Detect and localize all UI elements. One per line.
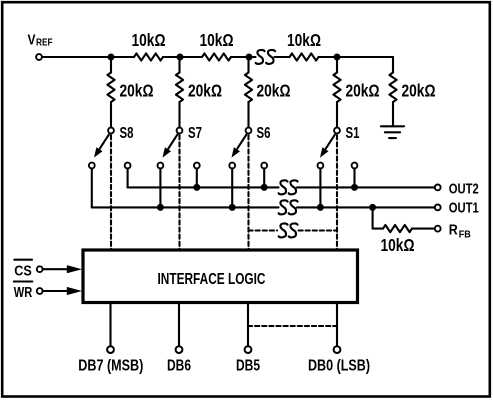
switch S6 pole [246,128,252,134]
svg-text:R: R [449,223,458,239]
dashed bus S6-S1 left [249,229,278,231]
wire OUT1 bus left [92,206,279,208]
wire contact S8 OUT2 stem [127,168,129,187]
contact S6 OUT1 [229,163,235,169]
svg-text:10kΩ: 10kΩ [381,235,415,255]
svg-text:S7: S7 [188,125,202,142]
svg-text:S8: S8 [120,125,134,142]
interface logic box U1 [83,250,358,303]
dashed control line S8 [110,135,112,249]
svg-text:INTERFACE LOGIC: INTERFACE LOGIC [158,271,266,288]
svg-text:REF: REF [36,38,53,49]
svg-text:S6: S6 [257,125,271,142]
wire DB7 [109,303,111,347]
label 20k R8 [402,81,436,101]
label 20k R6 [257,81,291,101]
terminal OUT2 [435,185,441,191]
wire contact S6 OUT1 stem [231,168,233,207]
label 20k R7 [346,81,380,101]
switch S8 pole [108,128,114,134]
terminal RFB [435,226,441,232]
wire break marks OUT2 [279,180,298,194]
wire DB6 [178,303,180,347]
label INTERFACE LOGIC [158,271,266,288]
label OUT2 [449,182,479,198]
label S6 [257,125,271,142]
dashed bus DB5-DB0 [248,325,337,327]
svg-text:20kΩ: 20kΩ [257,81,291,101]
label VREF [28,33,53,49]
resistor R5 20k [176,57,183,128]
label 10k R3 [287,30,321,50]
label 10k R2 [200,30,234,50]
label 10k R9 [381,235,415,255]
svg-text:OUT2: OUT2 [449,182,479,198]
OUT2 junction S7 [193,184,200,191]
wire node B [231,56,256,58]
dashed control line S6 [247,135,249,249]
wire OUT2 bus right [297,186,435,188]
resistor R6 20k [245,57,252,128]
wire contact S1 OUT2 stem [353,168,355,187]
wire RFB tap down [373,207,383,228]
label S1 [346,125,360,142]
wire node C to termination [319,56,394,58]
wire OUT1 bus right [297,206,435,208]
ground [381,126,404,138]
wire break marks OUT1 [279,200,298,214]
wire R9 to terminal [412,228,435,230]
terminal WR [37,288,43,294]
wire node A [163,56,202,58]
svg-text:DB5: DB5 [236,358,260,375]
OUT1 junction S7 [157,204,164,211]
terminal VREF [36,54,42,60]
switch S8 wiper arrow [94,135,109,158]
svg-text:CS: CS [14,262,32,279]
resistor R9 10k feedback [383,225,412,232]
label 20k R4 [120,81,154,101]
terminal OUT1 [435,205,441,211]
wire to R3 [275,56,290,58]
wire VREF to node A [42,56,134,58]
svg-text:DB7 (MSB): DB7 (MSB) [78,358,143,375]
dashed control line S7 [178,135,180,249]
switch S1 pole [334,128,340,134]
label OUT1 [449,201,479,217]
svg-text:WR: WR [14,284,33,301]
OUT2 junction S1 [351,184,358,191]
RFB tap junction [369,204,376,211]
label DB0 (LSB) [308,358,370,375]
switch S7 wiper arrow [163,135,178,158]
wire contact S7 OUT1 stem [159,168,161,207]
terminal DB0 [334,346,341,353]
svg-text:20kΩ: 20kΩ [346,81,380,101]
switch S6 wiper arrow [232,135,247,158]
svg-text:20kΩ: 20kΩ [402,81,436,101]
label RFB [449,223,471,241]
terminal DB6 [176,346,183,353]
svg-text:FB: FB [459,230,471,241]
wire OUT2 bus left [128,186,279,188]
svg-text:10kΩ: 10kΩ [200,30,234,50]
resistor R1 10k [134,53,163,60]
wire contact S8 OUT1 stem [91,168,93,207]
contact S8 OUT2 [125,163,131,169]
resistor R4 20k [107,57,114,128]
label DB6 [167,358,191,375]
switch S7 pole [177,128,183,134]
OUT1 junction S6 [229,204,236,211]
svg-text:DB0 (LSB): DB0 (LSB) [308,358,370,375]
svg-text:20kΩ: 20kΩ [120,81,154,101]
label DB5 [236,358,260,375]
svg-text:V: V [28,33,36,49]
wire WR with arrowhead [43,287,82,295]
wire contact S1 OUT1 stem [319,168,321,207]
dashed control line S1 [336,135,338,249]
terminal DB5 [245,346,252,353]
wire contact S6 OUT2 stem [263,168,265,187]
resistor R2 10k [202,53,231,60]
svg-text:10kΩ: 10kΩ [132,30,166,50]
switch S1 wiper arrow [320,135,335,158]
svg-text:DB6: DB6 [167,358,191,375]
node B junction [177,54,184,61]
node C junction [246,54,253,61]
node A junction [108,54,115,61]
resistor R7 20k [333,57,340,128]
terminal CS [37,266,43,272]
wire DB5 [247,303,249,347]
wire DB0 [336,303,338,347]
wire CS with arrowhead [43,265,82,273]
wire contact S7 OUT2 stem [196,168,198,187]
label S7 [188,125,202,142]
label S8 [120,125,134,142]
terminal DB7 [107,346,114,353]
contact S6 OUT2 [261,163,267,169]
contact S7 OUT2 [194,163,200,169]
wire break marks dashed bus [279,223,298,237]
svg-text:20kΩ: 20kΩ [188,81,222,101]
dashed bus S6-S1 right [299,229,338,231]
contact S8 OUT1 [89,163,95,169]
svg-text:10kΩ: 10kΩ [287,30,321,50]
label DB7 (MSB) [78,358,143,375]
OUT2 junction S6 [261,184,268,191]
label CS with overbar [14,260,32,280]
contact S1 OUT2 [352,163,358,169]
label 10k R1 [132,30,166,50]
svg-text:OUT1: OUT1 [449,201,479,217]
resistor R8 20k termination [389,57,396,126]
node D junction [334,54,341,61]
svg-text:S1: S1 [346,125,360,142]
contact S7 OUT1 [158,163,164,169]
wire break marks top rail [256,50,276,64]
OUT1 junction S1 [317,204,324,211]
contact S1 OUT1 [318,163,324,169]
label WR with overbar [14,282,33,302]
label 20k R5 [188,81,222,101]
resistor R3 10k [290,53,319,60]
